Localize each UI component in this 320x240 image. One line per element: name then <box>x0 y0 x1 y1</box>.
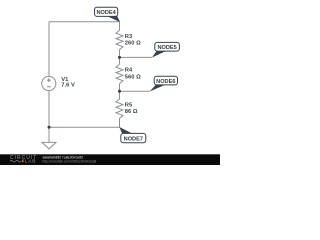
svg-text:R3: R3 <box>125 34 133 40</box>
svg-text:560 Ω: 560 Ω <box>125 74 141 80</box>
resistor R5 <box>116 99 123 118</box>
junction node at ground/bottom wire <box>48 126 51 129</box>
ground <box>42 142 56 149</box>
svg-text:NODE6: NODE6 <box>156 79 175 85</box>
voltage source V1 <box>42 76 56 90</box>
svg-text:86 Ω: 86 Ω <box>125 109 138 115</box>
wire stub to NODE6 <box>120 90 151 92</box>
wire chain between R4 and R5 <box>119 84 121 99</box>
svg-text:http://circuitlab.com/c/95nc3b: http://circuitlab.com/c/95nc3bmrb3xq8 <box>43 159 97 163</box>
wire chain below R5 <box>119 118 121 127</box>
wire left rail above V1 <box>48 22 50 77</box>
wire left rail below V1 to ground <box>48 91 50 143</box>
resistor R3 <box>116 30 123 49</box>
wire bottom from V1 rail to chain <box>49 126 120 128</box>
node flag NODE4 <box>95 7 121 22</box>
junction node at NODE5 tap <box>118 56 121 59</box>
node flag NODE7 <box>119 127 146 143</box>
svg-text:NODE4: NODE4 <box>96 10 116 16</box>
node flag NODE5 <box>152 42 180 57</box>
footer bar <box>0 154 220 165</box>
node flag NODE6 <box>150 76 178 91</box>
svg-text:R5: R5 <box>125 103 133 109</box>
svg-text:NODE7: NODE7 <box>124 136 143 142</box>
wire chain between R3 and R4 <box>119 50 121 65</box>
svg-text:260 Ω: 260 Ω <box>125 41 141 47</box>
svg-text:7.6 V: 7.6 V <box>61 83 75 89</box>
svg-text:LAB: LAB <box>25 159 36 165</box>
junction node at NODE6 tap <box>118 90 121 93</box>
svg-text:NODE5: NODE5 <box>157 45 176 51</box>
svg-text:R4: R4 <box>125 68 133 74</box>
resistor R4 <box>116 64 123 83</box>
wire top from V1 rail to resistor chain <box>49 21 120 23</box>
wire stub to NODE5 <box>120 56 153 58</box>
wire chain top segment <box>119 22 121 31</box>
